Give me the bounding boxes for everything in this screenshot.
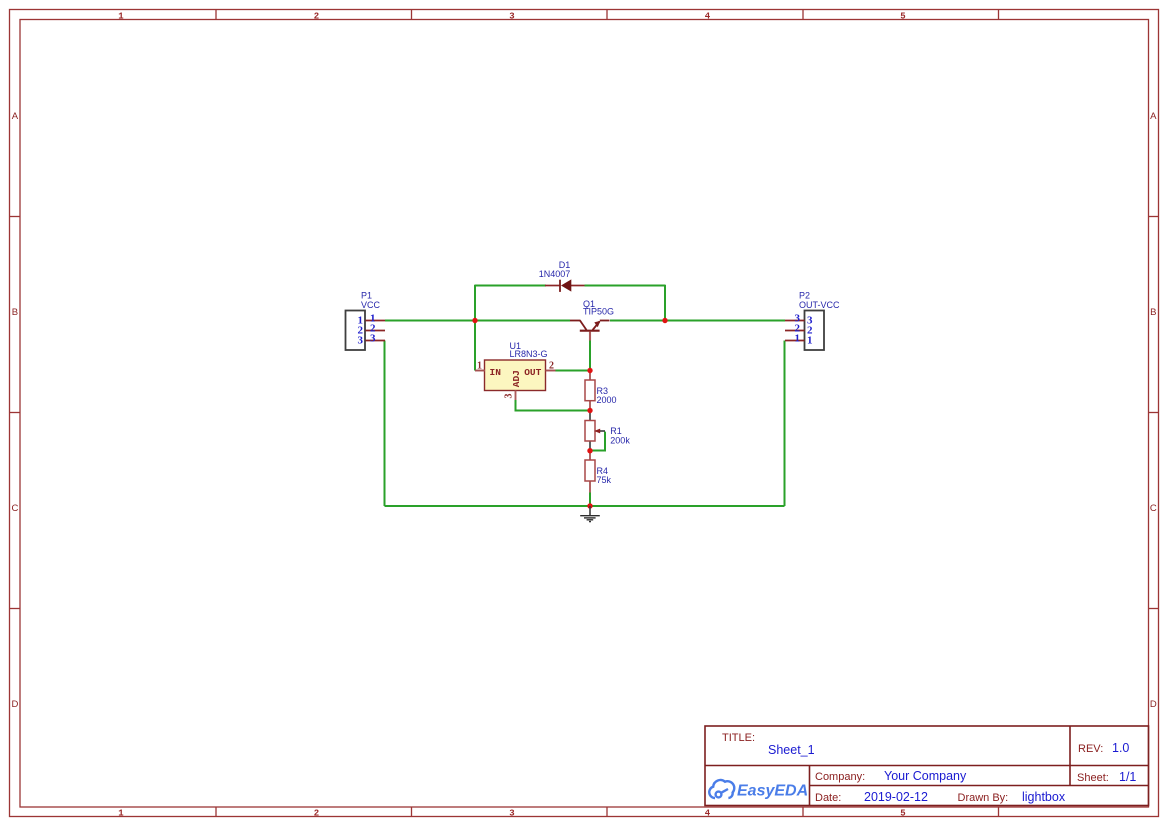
junction at VCC bus right bbox=[662, 318, 667, 323]
diode D1 bbox=[545, 279, 585, 292]
connector P1 bbox=[346, 311, 386, 351]
wire diode top left bbox=[475, 285, 546, 287]
wire U1 ADJ to R3 bottom node bbox=[516, 400, 591, 411]
wire ground rail bottom bbox=[385, 505, 785, 507]
wire Q1 base down to node bbox=[589, 340, 591, 371]
transistor Q1 bbox=[570, 321, 610, 341]
svg-text:LR8N3-G: LR8N3-G bbox=[510, 349, 548, 359]
svg-text:D: D bbox=[1150, 699, 1157, 710]
svg-text:2000: 2000 bbox=[597, 395, 617, 405]
svg-text:TITLE:: TITLE: bbox=[722, 732, 755, 744]
wire diode top right bbox=[585, 285, 666, 287]
svg-text:75k: 75k bbox=[597, 475, 612, 485]
wire R1 wiper to node bbox=[590, 432, 605, 451]
wire P2 pin1 down right side bbox=[784, 341, 786, 507]
svg-text:2019-02-12: 2019-02-12 bbox=[864, 790, 928, 804]
svg-text:Company:: Company: bbox=[815, 771, 865, 783]
connector P2 bbox=[785, 311, 824, 351]
svg-text:OUT-VCC: OUT-VCC bbox=[799, 300, 840, 310]
svg-text:EasyEDA: EasyEDA bbox=[737, 783, 808, 800]
svg-text:IN: IN bbox=[490, 367, 502, 378]
svg-text:4: 4 bbox=[705, 12, 711, 22]
potentiometer R1 bbox=[585, 411, 605, 451]
wire VCC bus right bbox=[610, 320, 785, 322]
svg-text:1N4007: 1N4007 bbox=[539, 269, 571, 279]
svg-text:3: 3 bbox=[370, 333, 376, 345]
svg-text:1/1: 1/1 bbox=[1119, 770, 1136, 784]
wire R4 to ground rail bbox=[589, 493, 591, 507]
svg-text:1: 1 bbox=[807, 335, 813, 347]
svg-text:P1: P1 bbox=[361, 290, 372, 300]
svg-text:D: D bbox=[11, 699, 18, 710]
svg-text:VCC: VCC bbox=[361, 300, 381, 310]
wire vertical right diode to bus bbox=[664, 285, 666, 321]
junction at R3 bottom node bbox=[587, 408, 592, 413]
ground bbox=[580, 506, 600, 522]
svg-text:5: 5 bbox=[900, 809, 905, 819]
svg-text:OUT: OUT bbox=[524, 367, 541, 378]
svg-text:1: 1 bbox=[118, 12, 124, 22]
svg-text:B: B bbox=[1150, 307, 1156, 318]
svg-text:2: 2 bbox=[314, 809, 319, 819]
svg-text:C: C bbox=[1150, 503, 1157, 514]
P1 pin 2 number bbox=[358, 323, 377, 337]
junction at U1 OUT node bbox=[587, 368, 592, 373]
svg-text:Your Company: Your Company bbox=[884, 769, 967, 783]
svg-text:3: 3 bbox=[358, 335, 364, 347]
junction at ground rail bbox=[587, 503, 592, 508]
svg-text:R1: R1 bbox=[610, 426, 622, 436]
svg-text:A: A bbox=[12, 111, 19, 122]
svg-text:B: B bbox=[12, 307, 18, 318]
svg-text:REV:: REV: bbox=[1078, 743, 1103, 755]
svg-text:TIP50G: TIP50G bbox=[583, 306, 614, 316]
svg-text:Sheet:: Sheet: bbox=[1077, 772, 1109, 784]
svg-text:1: 1 bbox=[795, 333, 801, 345]
wire VCC bus left bbox=[385, 320, 570, 322]
resistor R4 bbox=[585, 451, 595, 493]
P1 pin 1 number bbox=[358, 313, 376, 327]
svg-text:Sheet_1: Sheet_1 bbox=[768, 743, 815, 757]
svg-text:1: 1 bbox=[118, 809, 124, 819]
P1 pin 3 number bbox=[358, 333, 377, 347]
junction at VCC bus left bbox=[472, 318, 477, 323]
svg-text:5: 5 bbox=[900, 12, 905, 22]
svg-text:C: C bbox=[11, 503, 18, 514]
IC U1 LR8N3-G regulator bbox=[475, 360, 556, 400]
svg-text:A: A bbox=[1150, 111, 1157, 122]
svg-text:2: 2 bbox=[549, 361, 554, 372]
wire U1 OUT to R3 node bbox=[555, 370, 590, 372]
svg-text:200k: 200k bbox=[610, 436, 630, 446]
junction at R1 bottom node bbox=[587, 448, 592, 453]
svg-text:P2: P2 bbox=[799, 290, 810, 300]
P2 pin 1 number bbox=[795, 333, 813, 347]
wire vertical left to U1 IN bbox=[474, 285, 476, 371]
svg-text:3: 3 bbox=[504, 394, 515, 399]
svg-text:lightbox: lightbox bbox=[1022, 790, 1066, 804]
svg-text:4: 4 bbox=[705, 809, 711, 819]
P2 pin 2 number bbox=[795, 323, 814, 337]
svg-text:ADJ: ADJ bbox=[511, 370, 522, 387]
resistor R3 bbox=[585, 371, 595, 411]
svg-text:1.0: 1.0 bbox=[1112, 741, 1129, 755]
svg-text:1: 1 bbox=[477, 361, 482, 372]
svg-text:Date:: Date: bbox=[815, 792, 841, 804]
svg-text:3: 3 bbox=[509, 12, 514, 22]
P2 pin 3 number bbox=[795, 313, 814, 327]
svg-text:Drawn By:: Drawn By: bbox=[958, 792, 1009, 804]
svg-text:3: 3 bbox=[509, 809, 514, 819]
wire P1 pin3 down left side bbox=[384, 341, 386, 507]
svg-text:2: 2 bbox=[314, 12, 319, 22]
